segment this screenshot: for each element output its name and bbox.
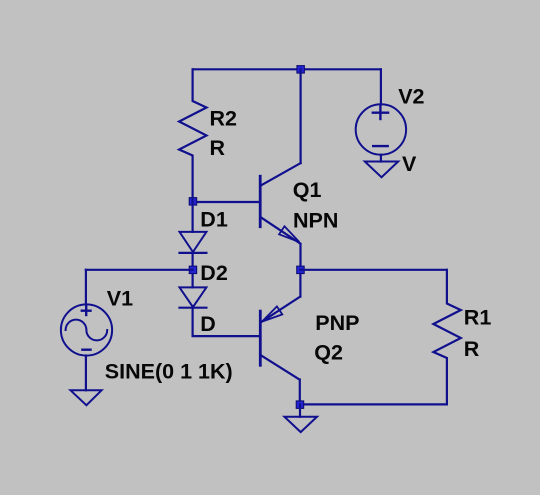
wire D1 cathode to D2 node	[192, 253, 194, 288]
label PNP	[315, 311, 359, 335]
label R1	[464, 305, 492, 329]
svg-text:R: R	[464, 337, 480, 361]
wire collector node to ground	[299, 404, 301, 416]
wire V2 top lead	[380, 69, 382, 104]
svg-text:R: R	[210, 136, 226, 160]
label R2	[210, 107, 238, 131]
label Q1	[293, 178, 322, 202]
label R value of R1	[464, 337, 480, 361]
svg-text:PNP: PNP	[315, 311, 359, 335]
wire D2 cathode to Q2 base	[193, 308, 259, 336]
label Q2	[314, 341, 343, 365]
label SINE(0 1 1K)	[105, 359, 233, 383]
label V2	[398, 85, 424, 109]
svg-text:V1: V1	[107, 286, 133, 310]
wire Q1 collector vertical	[300, 69, 302, 163]
node junction Q2 collector ground node	[296, 401, 304, 409]
label R value of R2	[210, 136, 226, 160]
svg-text:D2: D2	[200, 261, 228, 285]
wire V1 top lead	[85, 270, 87, 305]
wire D1 anode lead	[192, 198, 194, 232]
ground under V2	[365, 162, 398, 178]
ground under V1	[71, 390, 102, 405]
label V value of V2	[402, 152, 417, 176]
voltage source V2	[356, 104, 406, 154]
wire V1 bottom lead	[85, 356, 87, 391]
svg-text:Q1: Q1	[293, 178, 322, 202]
wire Q1 base	[193, 201, 259, 203]
wire V1 to D2 node	[86, 269, 193, 271]
svg-text:R1: R1	[464, 305, 492, 329]
label D value of D2	[200, 312, 216, 336]
voltage source V1 sine	[61, 304, 112, 355]
diode D1	[180, 232, 207, 253]
resistor R1	[433, 270, 460, 405]
transistor Q2	[260, 297, 300, 401]
label D2	[200, 261, 228, 285]
wire Q2 emitter vertical	[299, 270, 301, 297]
resistor R2	[179, 69, 206, 198]
svg-text:V: V	[402, 152, 417, 176]
node junction at top rail and Q1 collector	[297, 66, 305, 74]
wire R1 bottom to Q2 collector node	[300, 403, 447, 405]
svg-text:V2: V2	[398, 85, 424, 109]
wire V2 bottom lead	[380, 155, 382, 162]
svg-text:D: D	[200, 312, 216, 336]
wire emitter node to R1	[300, 269, 447, 271]
node junction D1 base node	[189, 198, 197, 206]
svg-text:Q2: Q2	[314, 341, 343, 365]
ground under Q2	[284, 417, 317, 432]
transistor Q1	[260, 163, 300, 266]
svg-text:D1: D1	[200, 207, 228, 231]
svg-text:R2: R2	[210, 107, 238, 131]
node junction emitter output node	[297, 266, 305, 274]
node junction D2 input node	[189, 266, 197, 274]
label V1	[107, 286, 133, 310]
label NPN	[293, 209, 338, 233]
svg-text:NPN: NPN	[293, 209, 338, 233]
diode D2	[180, 287, 207, 307]
svg-text:SINE(0 1 1K): SINE(0 1 1K)	[105, 359, 233, 383]
wire top rail	[193, 68, 381, 70]
label D1	[200, 207, 228, 231]
